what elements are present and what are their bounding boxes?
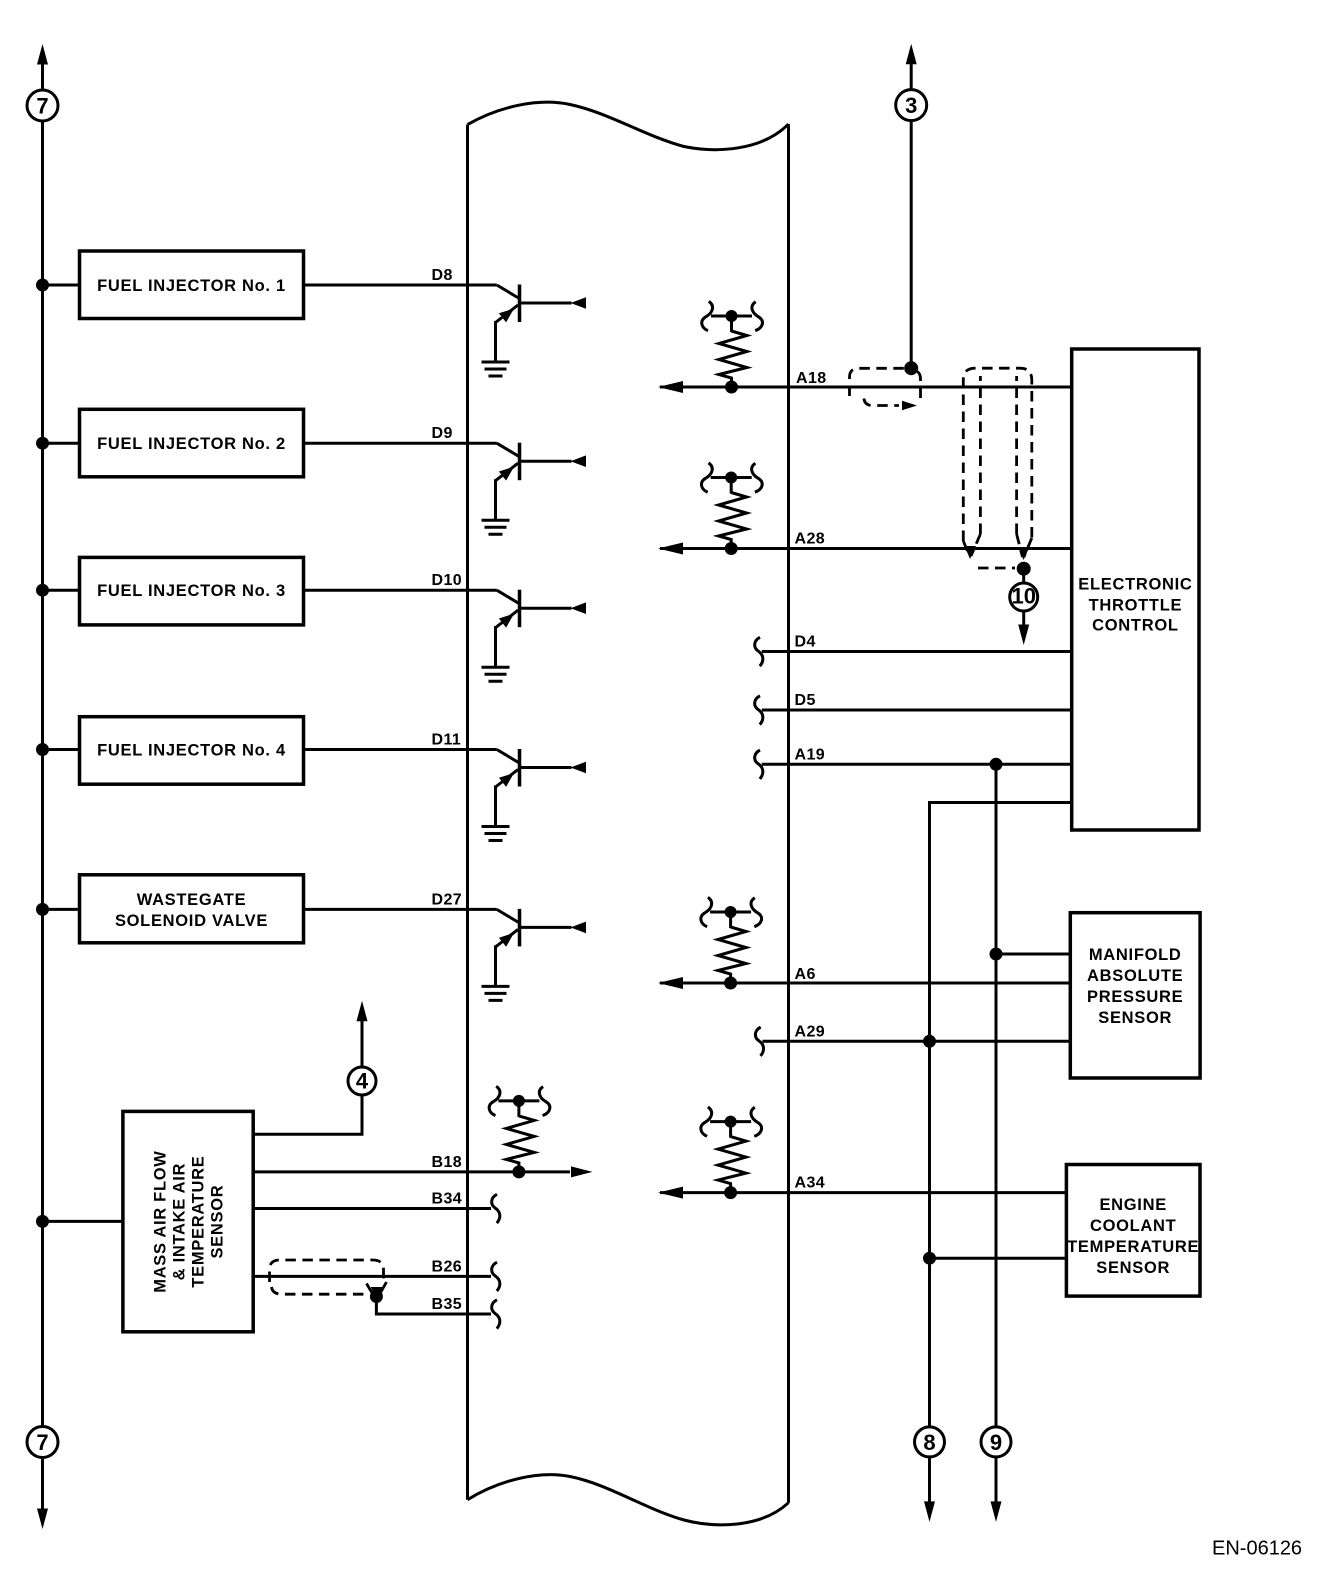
wire: wastegate valve to ECM pin D27 [304,908,497,911]
ground (Q5 emitter) [482,986,510,1000]
svg-text:9: 9 [990,1430,1002,1455]
wire: ECT sensor ground to branch [930,1257,1067,1260]
svg-text:ELECTRONIC: ELECTRONIC [1078,576,1192,594]
node: junction A29 on sensor ground branch [923,1035,936,1048]
ECM block left edge [466,125,469,1500]
svg-text:MASS AIR FLOW: MASS AIR FLOW [152,1150,170,1292]
svg-text:& INTAKE AIR: & INTAKE AIR [171,1163,189,1280]
wire B34: MAF sensor to ECM [253,1207,491,1210]
svg-text:ABSOLUTE: ABSOLUTE [1087,967,1183,985]
node: junction ECT ground on branch [923,1252,936,1265]
connector circle 3 [896,90,927,121]
wire: bus to fuel injector 3 [43,589,80,592]
wire: bus to fuel injector 2 [43,442,80,445]
arrow: A18 wire left end [658,381,683,393]
svg-text:SOLENOID VALVE: SOLENOID VALVE [115,912,268,930]
svg-text:PRESSURE: PRESSURE [1087,988,1183,1006]
svg-text:SENSOR: SENSOR [1098,1009,1172,1027]
svg-text:TEMPERATURE: TEMPERATURE [1067,1238,1199,1256]
svg-text:FUEL INJECTOR No. 3: FUEL INJECTOR No. 3 [97,582,286,600]
ground (Q3 emitter) [482,667,510,681]
svg-text:FUEL INJECTOR No. 1: FUEL INJECTOR No. 1 [97,277,286,295]
transistor Q5 (wastegate driver) [496,909,587,987]
transistor Q4 (injector 4 driver) [496,749,587,827]
ECM block right edge [787,124,790,1503]
wire: drain node to circle 10 [1022,569,1025,583]
shield: dashed loop around B26 wire [270,1260,387,1295]
manifold absolute pressure sensor box [1070,913,1200,1078]
wire: fuel injector 3 to ECM pin D10 [304,589,497,592]
arrow: A28 wire left end [658,543,683,555]
arrow: A34 wire left end [658,1187,683,1199]
wire A28: ECM to electronic throttle control [660,547,1072,550]
wire: bus to fuel injector 4 [43,748,80,751]
connector circle 10 [1010,583,1038,611]
wire: fuel injector 4 to ECM pin D11 [304,748,497,751]
transistor Q1 (injector 1 driver) [496,285,587,363]
wire A6: ECM to MAP sensor [660,982,1070,985]
wire: fuel injector 2 to ECM pin D9 [304,442,497,445]
arrow: A6 wire left end [658,977,683,989]
svg-text:7: 7 [36,1430,48,1455]
electronic throttle control box [1072,349,1199,830]
svg-text:8: 8 [923,1430,935,1455]
node: shield drain on A18 shield [904,361,918,375]
svg-text:D11: D11 [432,732,462,749]
ground (Q1 emitter) [482,362,510,376]
svg-text:D27: D27 [432,891,463,908]
svg-text:WASTEGATE: WASTEGATE [137,891,247,909]
wire: circle 8 to arrow [928,1457,931,1504]
arrow: above circle 4 [357,1001,368,1022]
svg-text:7: 7 [36,94,48,119]
fuel injector No.2 box [80,409,304,477]
svg-text:D10: D10 [432,572,463,589]
arrow: below circle 10 [1018,625,1029,646]
wire: A19 branch down to circle 9 [995,764,998,1427]
svg-text:FUEL INJECTOR No. 2: FUEL INJECTOR No. 2 [97,435,286,453]
svg-text:D5: D5 [795,692,816,709]
arrow: below circle 9 [991,1501,1002,1522]
wire: MAF sensor to circle 4 [253,1095,362,1134]
transistor Q3 (injector 3 driver) [496,590,587,668]
wire: circle 10 to arrow [1022,611,1025,628]
svg-text:FUEL INJECTOR No. 4: FUEL INJECTOR No. 4 [97,742,286,760]
svg-text:B18: B18 [432,1154,463,1171]
wire: left power bus vertical [41,60,44,1512]
arrow: bottom of left bus [37,1509,48,1530]
wire: ETC lower pin to vertical branch [930,803,1072,1427]
wire: MAP sensor supply to A19 branch [996,953,1070,956]
svg-text:D9: D9 [432,425,453,442]
shield: twisted pair dashed loops around A18/A28 [963,368,1032,568]
node: A19 branch junction [990,758,1003,771]
resistor: B18 pull-up inside ECM [489,1086,550,1178]
connector circle 4 [348,1067,376,1095]
svg-text:EN-06126: EN-06126 [1212,1538,1302,1560]
svg-text:D8: D8 [432,267,453,284]
svg-text:ENGINE: ENGINE [1099,1196,1166,1214]
wire A29: ECM to MAP sensor [763,1040,1071,1043]
ground (Q4 emitter) [482,827,510,841]
node: B26 shield drain [370,1290,383,1303]
connector circle 8 [915,1427,945,1457]
ECM block top tear edge [468,102,789,149]
svg-text:A19: A19 [795,746,826,763]
arrow mark on A18 shield loop [902,401,917,411]
svg-text:A18: A18 [796,370,827,387]
wire B35: shield drain to ECM [376,1297,491,1315]
svg-text:MANIFOLD: MANIFOLD [1089,946,1182,964]
svg-text:10: 10 [1011,584,1035,609]
svg-text:B35: B35 [432,1296,463,1313]
resistor: A28 pull-up inside ECM [701,463,762,555]
wire D5: ECM to electronic throttle control [762,709,1072,712]
resistor: A18 pull-up inside ECM [702,301,763,393]
svg-text:CONTROL: CONTROL [1092,617,1178,635]
break squiggle: B26 wire [492,1262,500,1291]
svg-text:A29: A29 [795,1023,826,1040]
node: junction MAP supply on A19 branch [990,948,1003,961]
ECM block bottom tear edge [468,1475,789,1525]
wire A18: ECM to electronic throttle control [660,386,1072,389]
fuel injector No.4 box [80,717,304,785]
wire: circle 4 to arrow [361,1021,364,1067]
svg-text:SENSOR: SENSOR [1096,1259,1170,1277]
connector circle 7 (top) [27,90,58,121]
node: bus junction MAF sensor [36,1215,49,1228]
transistor Q2 (injector 2 driver) [496,443,587,521]
engine coolant temperature sensor box [1066,1165,1200,1297]
ground (Q2 emitter) [482,520,510,534]
break squiggle: D5 wire [755,696,763,725]
break squiggle: D4 wire [755,637,763,666]
svg-text:3: 3 [905,93,917,118]
wire A19: ECM to electronic throttle control [762,763,1072,766]
node: bus junction FI1 [36,279,49,292]
arrow: top of left bus [37,44,48,65]
wire D4: ECM to electronic throttle control [762,650,1072,653]
svg-text:A28: A28 [795,531,826,548]
svg-text:THROTTLE: THROTTLE [1089,597,1183,615]
arrow mark on B26 shield loop [371,1287,383,1299]
wire: fuel injector 1 to ECM pin D8 [304,284,497,287]
svg-text:B34: B34 [432,1191,463,1208]
wire A34: ECM to engine coolant temperature sensor [660,1191,1066,1194]
wastegate solenoid valve box [80,875,304,943]
wire B26: MAF sensor to ECM [253,1275,491,1278]
connector circle 7 (bottom) [27,1427,58,1458]
node: twisted pair drain to circle 10 [1017,562,1031,576]
svg-text:A34: A34 [795,1175,826,1192]
node: bus junction wastegate [36,903,49,916]
break squiggle: B34 wire [492,1194,500,1223]
svg-text:4: 4 [356,1069,369,1094]
break squiggle: B35 wire [492,1300,500,1329]
break squiggle: A19 wire [755,750,763,779]
wire: from circle 3 down to shield drain node [910,62,913,366]
wire B18: MAF sensor to ECM [253,1170,570,1173]
arrow: B18 wire right end [571,1166,593,1177]
wire: bus to fuel injector 1 [43,284,80,287]
node: bus junction FI4 [36,743,49,756]
shield: dashed loop around A18 wire [850,368,921,405]
resistor: A6 pull-up inside ECM [701,897,762,989]
node: bus junction FI3 [36,584,49,597]
svg-text:COOLANT: COOLANT [1090,1217,1176,1235]
fuel injector No.3 box [80,557,304,625]
svg-text:B26: B26 [432,1258,463,1275]
arrow: below circle 8 [924,1501,935,1522]
mass air flow and intake air temperature sensor box [123,1111,253,1331]
resistor: A34 pull-up inside ECM [701,1107,762,1199]
svg-text:SENSOR: SENSOR [209,1185,227,1259]
break squiggle: A29 wire [755,1027,763,1056]
wire: circle 9 to arrow [995,1457,998,1504]
svg-text:A6: A6 [795,966,816,983]
wire: bus to wastegate solenoid valve [43,908,80,911]
svg-text:TEMPERATURE: TEMPERATURE [190,1156,208,1288]
wire: bus to MAF sensor [43,1220,123,1223]
connector circle 9 [981,1427,1011,1457]
node: bus junction FI2 [36,437,49,450]
fuel injector No.1 box [80,251,304,319]
svg-text:D4: D4 [795,634,816,651]
arrow: circuit 3 top [906,44,917,65]
